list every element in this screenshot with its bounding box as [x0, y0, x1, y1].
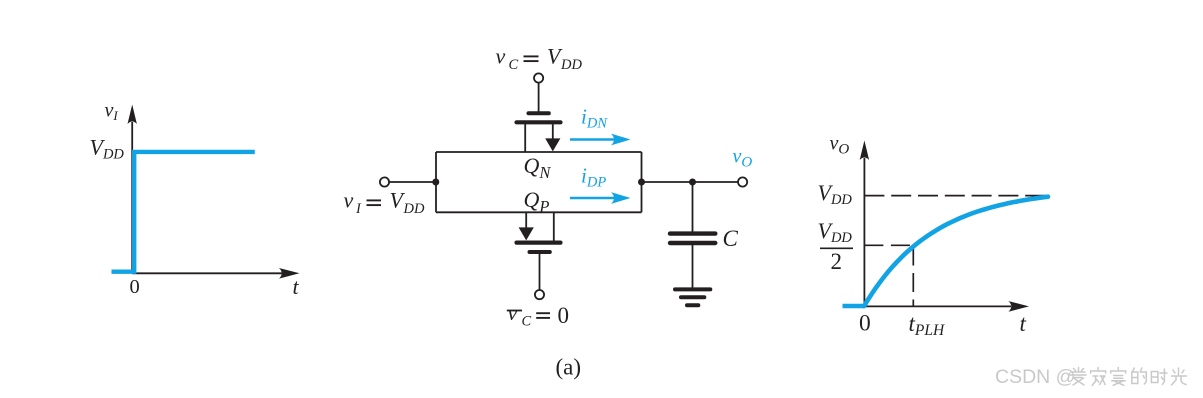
QP left (drain) leg — [525, 212, 527, 228]
vI step waveform (cyan) — [112, 152, 255, 272]
svg-text:VDD: VDD — [818, 218, 853, 246]
wire: loop top side — [436, 151, 642, 153]
svg-text:C: C — [522, 314, 532, 330]
wire: input terminal to node — [389, 181, 436, 183]
svg-text:(a): (a) — [556, 355, 582, 380]
svg-text:C: C — [723, 226, 739, 251]
QP right (source) leg — [553, 212, 555, 240]
vO exponential rise curve (cyan) — [864, 197, 1048, 307]
svg-text:0: 0 — [558, 303, 570, 328]
node: input junction — [432, 179, 439, 186]
QN left (source) leg — [524, 124, 526, 152]
left graph y-axis — [128, 105, 137, 274]
svg-text:0: 0 — [859, 311, 871, 337]
svg-text:DD: DD — [403, 201, 425, 217]
svg-text:vO: vO — [733, 146, 753, 171]
svg-text:t: t — [1020, 311, 1027, 336]
dashed VDD/2 horizontal line — [864, 244, 913, 246]
svg-text:t: t — [293, 274, 300, 299]
QN right (drain) leg — [552, 124, 554, 140]
wire: output node to terminal — [642, 181, 738, 183]
vO baseline segment before t=0 (cyan) — [843, 304, 865, 308]
current arrow iDP (cyan) — [570, 192, 631, 204]
terminal vC (top open circle) — [534, 73, 543, 82]
svg-text:vO: vO — [830, 133, 850, 158]
QP gate bar — [530, 250, 550, 254]
svg-text:C: C — [509, 57, 519, 73]
left graph x-axis — [132, 268, 299, 279]
transistor QN — [517, 83, 561, 152]
ground — [675, 289, 710, 305]
terminal vI (input open circle) — [380, 177, 389, 186]
node: output junction on loop — [638, 179, 645, 186]
right graph y-axis — [860, 141, 869, 307]
QN channel bar — [517, 120, 561, 124]
label vCbar = 0 — [507, 300, 569, 330]
wire: junction down to capacitor — [692, 182, 694, 232]
svg-text:v: v — [496, 44, 506, 69]
QN drain current arrowhead (down) — [545, 138, 560, 151]
svg-text:DD: DD — [560, 57, 582, 73]
QP gate lead wire — [539, 254, 541, 290]
wire: capacitor to ground — [692, 245, 694, 288]
QP channel bar — [517, 241, 561, 245]
label VDD/2 fraction — [818, 218, 854, 274]
label vC = VDD — [496, 44, 583, 74]
wire: loop right side — [641, 152, 643, 212]
svg-text:QN: QN — [524, 153, 552, 182]
terminal vC-bar (bottom open circle) — [535, 290, 544, 299]
watermark chinese glyph strokes — [1071, 368, 1187, 386]
terminal vO (output open circle) — [738, 177, 747, 186]
QN gate bar — [529, 111, 549, 115]
svg-text:VDD: VDD — [90, 135, 125, 163]
svg-text:tPLH: tPLH — [909, 311, 945, 339]
svg-text:CSDN @: CSDN @ — [995, 366, 1075, 388]
svg-text:I: I — [355, 201, 362, 217]
svg-text:v: v — [508, 300, 518, 325]
wire: loop left side — [435, 152, 437, 212]
svg-text:iDP: iDP — [581, 163, 606, 190]
current arrow iDN (cyan) — [570, 134, 631, 146]
right graph x-axis — [864, 301, 1029, 312]
wire: loop bottom side — [436, 211, 642, 213]
svg-text:0: 0 — [130, 276, 140, 298]
capacitor C — [670, 234, 715, 243]
svg-text:QP: QP — [524, 187, 550, 216]
svg-text:v: v — [344, 188, 354, 213]
svg-text:iDN: iDN — [581, 105, 608, 132]
dashed tPLH vertical line — [912, 247, 914, 307]
QP drain current arrowhead (down) — [519, 227, 534, 240]
dashed VDD level line — [864, 195, 1047, 197]
node: capacitor junction — [689, 179, 696, 186]
svg-text:vI: vI — [105, 99, 119, 123]
QN gate lead wire — [538, 83, 540, 112]
label vI = VDD — [344, 188, 425, 218]
svg-text:2: 2 — [831, 249, 843, 274]
svg-text:VDD: VDD — [818, 180, 853, 208]
transistor QP — [517, 212, 561, 290]
